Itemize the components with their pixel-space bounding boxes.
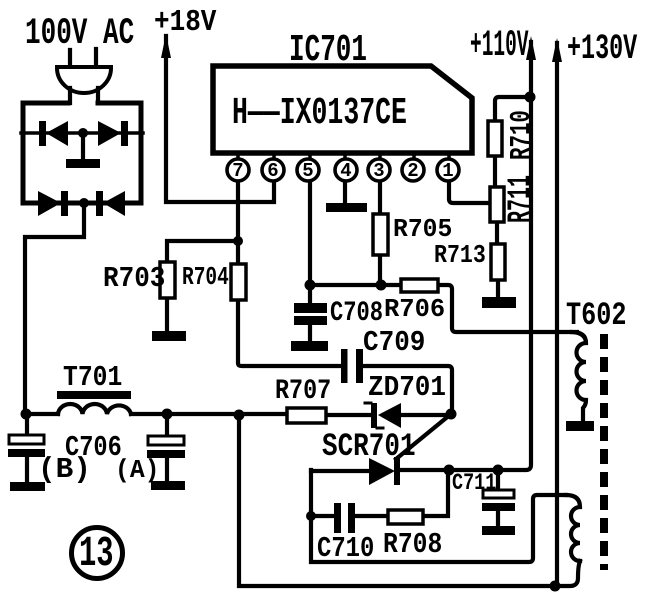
svg-text:+130V: +130V [567, 29, 637, 69]
svg-text:6: 6 [267, 160, 278, 182]
svg-text:ZD701: ZD701 [368, 372, 446, 405]
svg-text:1: 1 [442, 160, 453, 182]
svg-text:SCR701: SCR701 [322, 429, 416, 465]
svg-text:R713: R713 [434, 241, 486, 270]
svg-text:H——IX0137CE: H——IX0137CE [232, 92, 407, 135]
svg-text:IC701: IC701 [289, 28, 367, 71]
svg-text:(B): (B) [38, 453, 91, 486]
svg-text:T701: T701 [63, 362, 122, 394]
svg-text:5: 5 [302, 160, 313, 182]
svg-text:3: 3 [373, 160, 384, 182]
svg-text:R706: R706 [384, 295, 445, 324]
svg-text:C711: C711 [452, 471, 496, 496]
svg-text:(A): (A) [115, 455, 159, 485]
svg-text:+18V: +18V [154, 4, 217, 40]
svg-text:R711: R711 [504, 175, 540, 223]
svg-text:R708: R708 [383, 529, 442, 561]
svg-text:+110V: +110V [470, 25, 529, 66]
svg-text:R707: R707 [275, 375, 331, 406]
svg-text:C710: C710 [317, 532, 374, 565]
svg-text:100V AC: 100V AC [25, 13, 134, 55]
svg-text:13: 13 [79, 530, 114, 578]
svg-text:C709: C709 [363, 327, 425, 360]
svg-text:R703: R703 [103, 263, 165, 296]
svg-text:R705: R705 [393, 214, 452, 244]
svg-text:7: 7 [232, 160, 243, 182]
svg-text:2: 2 [407, 160, 418, 182]
svg-text:C708: C708 [330, 298, 383, 329]
svg-text:R704: R704 [182, 263, 229, 292]
svg-text:4: 4 [340, 160, 351, 182]
svg-text:R710: R710 [505, 110, 538, 160]
svg-text:T602: T602 [566, 297, 627, 334]
